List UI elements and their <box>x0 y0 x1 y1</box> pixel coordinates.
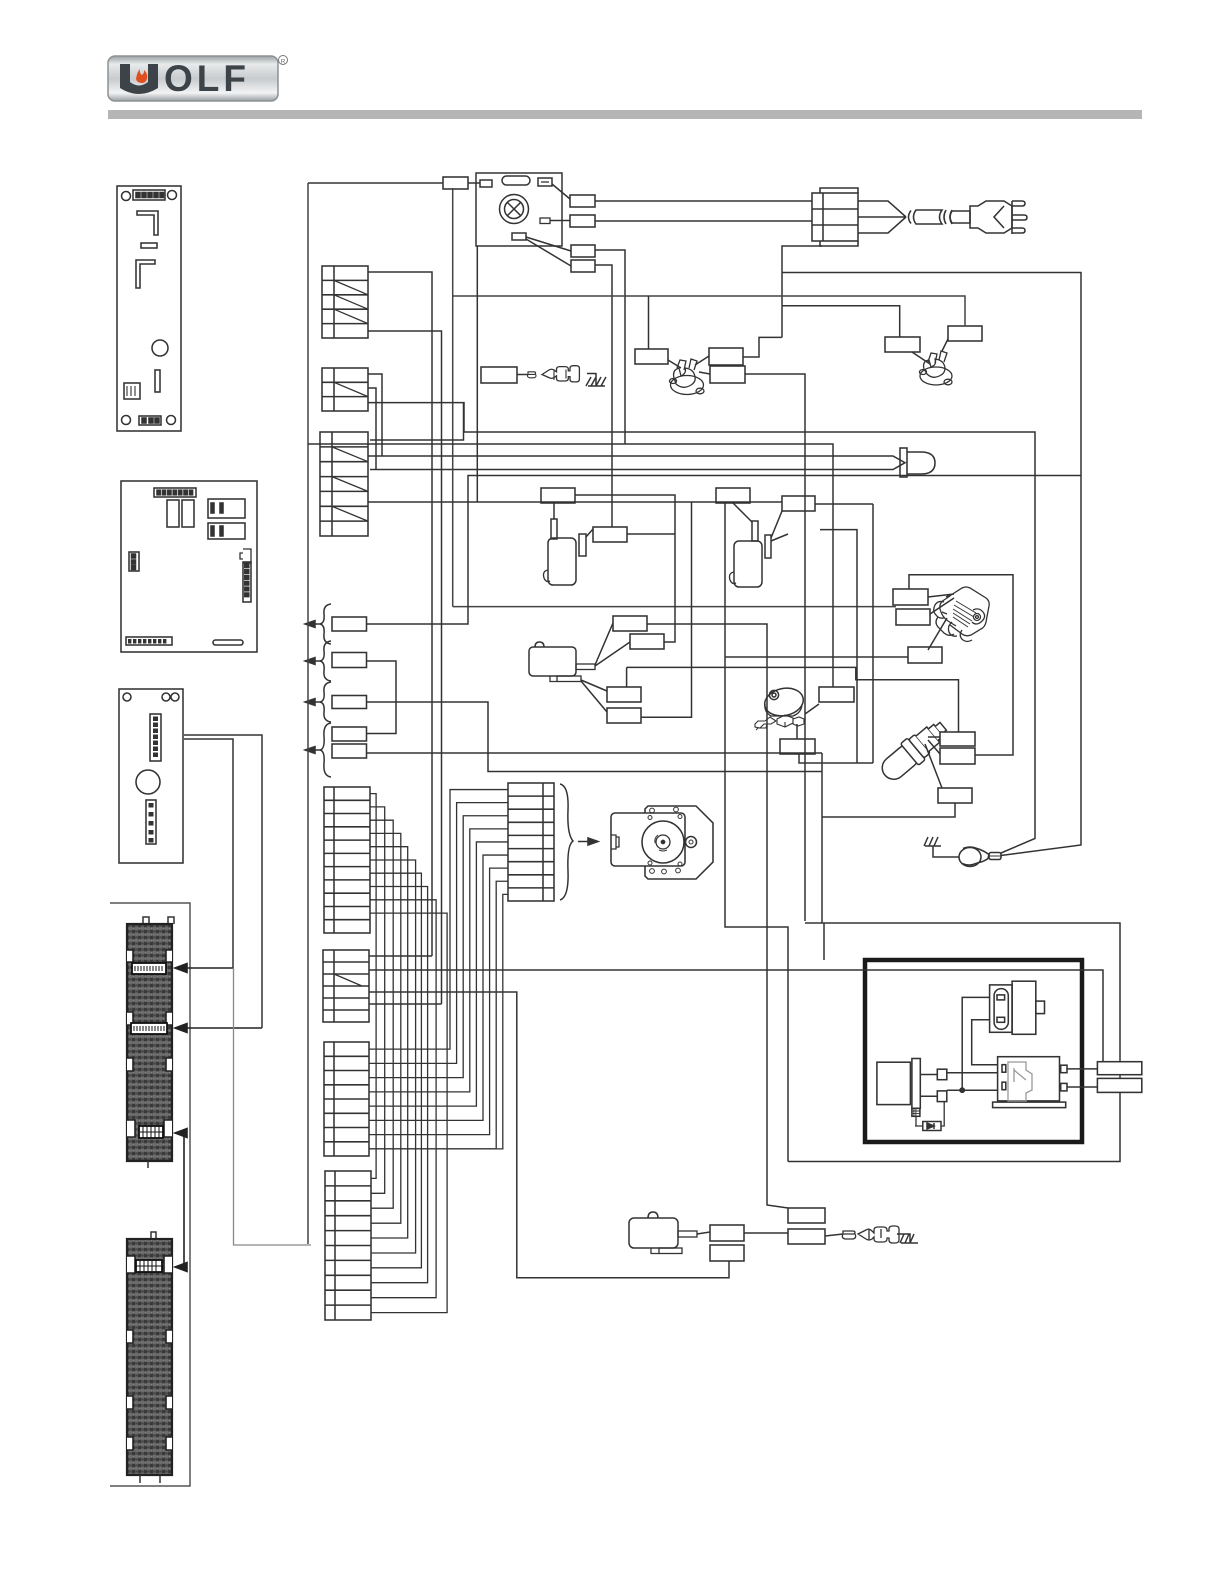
brace4 label b <box>332 744 367 758</box>
connector block C <box>325 1171 371 1320</box>
PS label2 <box>780 739 815 754</box>
wire block3 row1 link <box>370 403 464 440</box>
wire MS1 label3 feed <box>627 667 959 732</box>
LS1 label2 <box>593 527 627 542</box>
thermostat T2 <box>920 351 953 385</box>
T1 wires <box>668 356 710 374</box>
MS2 label A <box>710 1225 744 1241</box>
lamp label W2 <box>570 195 595 207</box>
strip1 arrow A3 <box>175 1129 187 1138</box>
lamp label W4 <box>571 245 595 257</box>
wire T1 label r2 <box>745 374 805 921</box>
outer thin rect <box>788 753 1120 1162</box>
bake igniter element <box>368 448 935 477</box>
strip2 connector J4 <box>136 1260 162 1272</box>
door switch DS1 <box>481 366 596 383</box>
membrane enclosure box <box>110 903 190 1486</box>
box output wires <box>1067 1069 1097 1087</box>
PS label1 <box>819 687 854 702</box>
spark switch stack SW <box>934 587 989 642</box>
wire brace2-brace4a link <box>367 661 397 734</box>
wire block2 row3 right <box>368 403 1035 853</box>
wire gray bottom left <box>234 968 312 1245</box>
wire block3 row5 long <box>368 501 782 503</box>
SW label3 <box>908 647 942 663</box>
ring terminal RT <box>959 847 1001 867</box>
wire block1 row1 long <box>368 272 432 956</box>
T2 label left <box>885 337 920 352</box>
svg-text:OLF: OLF <box>164 58 250 99</box>
T1 label left <box>635 349 668 364</box>
wire SP label2 right <box>909 575 1013 755</box>
wire brace1 feed <box>367 476 1082 625</box>
element strip 2 <box>127 1232 172 1483</box>
lamp label W5 <box>571 260 595 272</box>
SP label2 <box>940 748 975 764</box>
harness brace group 4 <box>305 723 331 777</box>
wire latch1 label2 right <box>627 533 675 535</box>
svg-text:R: R <box>281 59 286 66</box>
wire brace3 long <box>367 702 823 772</box>
wire H444 presssure feed <box>308 444 833 687</box>
strip2 arrow A4 <box>175 1263 187 1272</box>
wire blockA row2 long <box>369 970 1103 1062</box>
MS1 label2 <box>630 634 664 649</box>
box relay1 <box>990 981 1045 1034</box>
wire lampW4 down <box>595 250 625 444</box>
wire block2 row2 element <box>368 388 376 470</box>
wire latch1 label right <box>575 495 675 642</box>
wire lampW2 W3 to cord <box>595 201 812 221</box>
pressure switch PS <box>755 685 806 730</box>
wire T2 left label feed <box>782 306 900 337</box>
MS1 label1 <box>613 616 647 631</box>
MS1 label4 <box>607 708 641 723</box>
wire arrow3-arrow4 link <box>183 1133 185 1267</box>
SP wires <box>925 737 942 788</box>
strip1 connector J1 <box>132 963 166 974</box>
wire brace4b long <box>367 752 823 754</box>
box right rect R2 <box>1097 1078 1141 1092</box>
thermostat T1 <box>670 359 705 395</box>
SW wires <box>928 594 954 650</box>
wire latch2 label down <box>725 503 908 1162</box>
connector block CN1 <box>322 266 368 338</box>
wire T1 label r1 <box>743 337 782 357</box>
harness brace group 3 <box>305 682 331 722</box>
box right rect R1 <box>1097 1062 1141 1075</box>
harness brace group 2 <box>305 641 331 681</box>
blower motor M1 <box>611 806 713 879</box>
wire arrow2 feed <box>184 735 262 1028</box>
strip1 connector J3 <box>139 1126 163 1138</box>
wire block2 row1 element <box>368 374 382 456</box>
SP label1 <box>940 732 975 746</box>
chassis ground G2 <box>922 838 948 864</box>
lamp label W3 <box>570 215 595 227</box>
harness brace group 1 <box>305 604 331 644</box>
box relay2 <box>993 1057 1067 1108</box>
PS wires <box>797 704 819 739</box>
PCB1 control board <box>117 186 181 431</box>
harness block R <box>508 783 554 901</box>
SW label1 <box>893 589 928 605</box>
MS1 wires <box>581 623 630 712</box>
PCB2 relay board <box>121 481 257 652</box>
lamp label W1 <box>443 177 468 189</box>
harness block L <box>324 787 370 933</box>
power cord terminal block <box>812 188 858 246</box>
T2 label right <box>948 326 982 341</box>
wire lampW5 down <box>595 265 612 527</box>
box internal wires <box>920 997 997 1096</box>
brace4 label a <box>332 727 367 741</box>
brace2 label <box>332 653 367 668</box>
connector block CN2 <box>322 368 368 411</box>
WOLF logo <box>108 56 288 102</box>
harness brace R <box>560 784 573 900</box>
thick relay box <box>865 960 1082 1142</box>
wire T1 label left up <box>648 296 650 349</box>
MS1 label3 <box>607 687 641 702</box>
chassis ground G3 <box>897 1234 918 1243</box>
wire blockA row4 long <box>369 992 729 1278</box>
wire cord neutral loop <box>782 246 1081 856</box>
chassis ground G1 <box>586 373 606 386</box>
MS2 label C <box>788 1208 825 1223</box>
T1 label right1 <box>709 348 743 365</box>
wire block1 row5 long <box>368 331 442 1004</box>
latch solenoid LS2 <box>716 488 788 587</box>
microswitch MS1 <box>529 642 595 682</box>
wire blockA row5 stub <box>369 1003 442 1005</box>
label A latch2 <box>782 496 815 511</box>
brace3 label <box>332 696 367 709</box>
connector block CN3 <box>320 432 368 536</box>
PCB3 display board <box>119 689 183 863</box>
wire MS1 label4 right <box>641 502 692 717</box>
wire MS1 label1 right <box>647 624 788 1208</box>
box diode <box>915 1101 944 1131</box>
MS2 label B <box>710 1245 744 1261</box>
element strip 1 <box>127 917 174 1168</box>
wire lampbox bottom down <box>476 246 478 502</box>
MS2 label D <box>788 1229 825 1244</box>
microswitch MS2 <box>629 1212 697 1254</box>
wire SP label3 down <box>822 803 955 817</box>
lamp wires <box>526 184 571 266</box>
connector block A <box>323 950 369 1022</box>
wire lamp label down H296 <box>453 188 965 607</box>
box transformer <box>877 1059 947 1117</box>
T1 label right2 <box>710 366 745 383</box>
wire blockA row1 stub <box>369 955 432 957</box>
oven sensor probe SP <box>876 716 952 786</box>
wire arrow1 feed <box>184 739 233 968</box>
latch solenoid LS1 <box>541 488 593 585</box>
wire V308 trunk <box>307 183 309 1244</box>
terminal pair TP <box>842 1226 899 1243</box>
wire latch2 label3 right <box>820 530 857 763</box>
gray divider bar <box>108 110 1142 119</box>
wire lampW1-V308 <box>308 182 480 184</box>
MS2 wires <box>697 1232 843 1236</box>
SW label2 <box>896 609 930 625</box>
harness arrow to motor <box>578 838 598 845</box>
power cord <box>858 201 970 233</box>
strip1 arrow A2 <box>175 1024 262 1033</box>
strip1 connector J2 <box>131 1023 167 1034</box>
connector block B <box>324 1042 369 1156</box>
strip1 arrow A1 <box>175 964 233 973</box>
oven lamp box <box>476 173 562 246</box>
brace1 label <box>332 617 367 631</box>
power plug <box>970 201 1027 234</box>
SP label3 <box>938 788 972 803</box>
harness staircase left <box>370 794 447 1313</box>
T2 wires <box>912 339 948 364</box>
harness staircase right <box>369 790 508 1149</box>
